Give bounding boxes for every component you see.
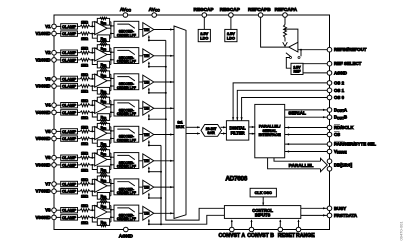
wire T/H to MUX (ch5) [154,134,174,136]
svg-text:CLAMP: CLAMP [62,76,77,81]
amplifier output node (ch3) [107,80,111,82]
resistor 1MOhm (V4) [78,104,81,106]
wire T/H to MUX (ch1) [154,29,174,31]
node: REFCAPA sense branch [284,28,286,30]
wire V2GND to clamp [56,59,60,61]
svg-text:CLAMP: CLAMP [62,208,77,213]
resistor 1MOhm (V6) [78,157,81,159]
track-and-hold T/H (ch8) [143,206,154,220]
wire to REF SELECT pin [303,63,327,65]
op-amp input amplifier (ch1) [95,22,107,35]
REF SELECT switch [300,50,302,57]
svg-text:REF: REF [294,70,302,74]
wire control to BUSY [301,207,327,209]
wire LPF to T/H (ch8) [139,212,143,214]
pin VDRIVE [327,149,332,154]
svg-text:1MΩ: 1MΩ [81,178,88,182]
svg-text:RFB: RFB [101,63,107,68]
resistor 1MOhm (V2GND) [78,59,81,61]
svg-text:ORDER LPF: ORDER LPF [117,60,136,64]
svg-text:CLAMP: CLAMP [62,162,77,167]
op-amp input amplifier (ch6) [95,153,107,166]
clamp circuit (V1) [61,24,78,29]
pin DOUTB [327,115,332,120]
T/H sampling control (ch1) [148,36,150,41]
wires to LPF (ch4) [111,104,114,106]
svg-text:ORDER LPF: ORDER LPF [117,138,136,142]
wires to LPF (ch8) [111,209,114,211]
clamp circuit (V6) [61,155,78,160]
wire VDRIVE [285,151,328,153]
wire T/H to MUX (ch3) [154,81,174,83]
svg-text:V4: V4 [45,103,51,108]
8:1 MUX [174,26,186,219]
T/H sampling control (ch3) [148,88,150,93]
pin RD/SCLK [327,125,332,130]
svg-text:2.5V: 2.5V [227,32,235,36]
svg-text:OS 2: OS 2 [334,80,345,85]
wire V7GND to clamp [56,190,60,192]
amplifier output node (ch1) [107,27,111,29]
svg-text:RFB: RFB [101,194,107,199]
svg-text:CLAMP: CLAMP [62,31,77,36]
svg-text:V4GND: V4GND [35,110,50,115]
op-amp input amplifier (ch3) [95,74,107,87]
svg-text:V6GND: V6GND [35,162,50,167]
svg-text:CLAMP: CLAMP [62,189,77,194]
svg-text:V3GND: V3GND [35,84,50,89]
wire V3 to clamp [56,78,60,80]
feedback resistor RFB top (ch6) [92,153,97,158]
svg-text:V5: V5 [45,129,51,134]
wire T/H to MUX (ch8) [154,212,174,214]
svg-text:1MΩ: 1MΩ [81,20,88,24]
svg-text:V6: V6 [45,155,51,160]
svg-text:T/H: T/H [144,54,150,58]
pin OS 2 [327,81,332,86]
clamp circuit (V7GND) [61,189,78,194]
pin OS 0 [327,95,332,100]
feedback resistor RFB bottom (ch7) [92,191,97,196]
svg-text:RFB: RFB [101,116,107,121]
svg-text:AVCC: AVCC [149,7,161,13]
second-order LPF (ch7) [114,179,139,195]
pin RANGE [298,220,300,227]
clamp circuit (V2GND) [61,57,78,62]
pin AGND (bottom) [124,227,129,232]
wire V5GND to clamp [56,138,60,140]
svg-text:AGND: AGND [119,233,134,239]
open arrow onto buffer output [283,42,288,46]
pin FRSTDATA [327,213,332,218]
clamp circuit (V1GND) [61,31,78,36]
track-and-hold T/H (ch7) [143,180,154,194]
T/H sampling control (ch8) [148,220,150,225]
wire switch to 2.5V reference [286,58,291,69]
svg-text:1MΩ: 1MΩ [81,204,88,208]
svg-text:1MΩ: 1MΩ [81,125,88,129]
svg-text:BUSY: BUSY [334,206,346,211]
resistor 1MOhm (V7) [78,183,81,185]
wire LPF to T/H (ch2) [139,55,143,57]
resistor 1MOhm (V1) [78,25,81,27]
wire to AGND pin [303,72,327,74]
svg-text:V8GND: V8GND [35,215,50,220]
svg-text:RFB: RFB [101,37,107,42]
feedback resistor RFB bottom (ch4) [92,112,97,117]
wire buffer input to REFIN/REFOUT [298,49,327,51]
svg-text:AGND: AGND [334,70,347,75]
amplifier output node (ch8) [107,211,111,213]
wire V8 to clamp [56,209,60,211]
pin CONVST A [231,220,233,227]
resistor 1MOhm (V5GND) [78,138,81,140]
control inputs block [224,206,300,219]
2.5V LDO regulator 2 [225,29,237,41]
svg-text:1MΩ: 1MΩ [81,90,88,94]
wire CLK OSC to control inputs [262,197,264,205]
wires to LPF (ch5) [111,130,114,132]
pin AGND [327,71,332,76]
svg-text:ORDER LPF: ORDER LPF [117,112,136,116]
wires to LPF (ch7) [111,183,114,185]
feedback resistor RFB top (ch3) [92,74,97,79]
pin OS 1 [327,88,332,93]
svg-text:1MΩ: 1MΩ [81,116,88,120]
svg-text:OS 0: OS 0 [334,95,345,100]
svg-text:1MΩ: 1MΩ [81,99,88,103]
track-and-hold T/H (ch3) [143,75,154,89]
wire control to FRSTDATA [301,214,327,216]
svg-text:CLAMP: CLAMP [62,181,77,186]
pin CONVST B [251,220,253,227]
wire REGCAP2 to LDO2 [230,17,232,29]
resistor 1MOhm (V4GND) [78,111,81,113]
svg-text:CLAMP: CLAMP [62,129,77,134]
wire V8GND to clamp [56,216,60,218]
pin DOUTA [327,108,332,113]
wire REGCAP1 to LDO1 [203,17,205,29]
svg-text:T/H: T/H [144,28,150,32]
svg-text:ORDER LPF: ORDER LPF [117,165,136,169]
svg-text:V1GND: V1GND [35,31,50,36]
feedback resistor RFB top (ch1) [92,22,97,27]
feedback resistor RFB top (ch4) [92,101,97,106]
op-amp input amplifier (ch8) [95,205,107,218]
wire OS 2 to digital filter [233,83,327,121]
svg-text:FRSTDATA: FRSTDATA [334,213,358,218]
pin REF SELECT [327,61,332,66]
svg-text:INPUTS: INPUTS [255,213,271,218]
svg-text:CLAMP: CLAMP [62,103,77,108]
svg-text:ORDER LPF: ORDER LPF [117,191,136,195]
resistor 1MOhm (V3GND) [78,85,81,87]
svg-text:ORDER LPF: ORDER LPF [117,33,136,37]
wire PAR/SER/BYTE SEL [285,143,328,145]
second-order LPF (ch2) [114,48,139,64]
wire V2 to clamp [56,52,60,54]
resistor 1MOhm (V1GND) [78,33,81,35]
track-and-hold T/H (ch6) [143,154,154,168]
wire V6 to clamp [56,157,60,159]
svg-text:REFIN/REFOUT: REFIN/REFOUT [334,47,367,52]
pin DB[15:0] (upper) [327,159,332,164]
svg-text:T/H: T/H [144,212,150,216]
feedback resistor RFB bottom (ch1) [92,34,97,39]
wire LPF to T/H (ch4) [139,107,143,109]
wire RD/SCLK [285,127,328,129]
svg-text:REFCAPB: REFCAPB [248,7,271,12]
SAR to digital filter bus [221,126,227,128]
clamp circuit (V5) [61,129,78,134]
svg-text:V3: V3 [45,76,51,81]
wire T/H to MUX (ch7) [154,186,174,188]
svg-text:1MΩ: 1MΩ [81,195,88,199]
second-order LPF (ch3) [114,74,139,90]
svg-text:ORDER LPF: ORDER LPF [117,86,136,90]
resistor 1MOhm (V7GND) [78,190,81,192]
wires to LPF (ch3) [111,77,114,79]
resistor 1MOhm (V5) [78,130,81,132]
svg-text:REGCAP: REGCAP [220,7,240,12]
op-amp input amplifier (ch2) [95,48,107,61]
wire OS 1 to digital filter [237,90,327,120]
svg-text:T/H: T/H [144,107,150,111]
svg-text:V7GND: V7GND [35,189,50,194]
svg-text:RFB: RFB [101,221,107,226]
wire V1GND to clamp [56,33,60,35]
svg-text:FILTER: FILTER [231,130,245,135]
CONVST A control trunk (channels 1-4) [166,40,225,220]
second-order LPF (ch8) [114,205,139,221]
16-bit SAR ADC [201,125,222,137]
track-and-hold T/H (ch4) [143,101,154,115]
clamp circuit (V4GND) [61,110,78,115]
pin RESET [279,220,281,227]
CONVST B control trunk (channels 5-8) [161,145,224,224]
second-order LPF (ch5) [114,126,139,142]
feedback resistor RFB bottom (ch2) [92,60,97,65]
feedback resistor RFB bottom (ch6) [92,165,97,170]
pin DB[15:0] (lower) [327,167,332,172]
svg-text:1MΩ: 1MΩ [81,142,88,146]
svg-text:DB[15:0]: DB[15:0] [334,163,353,168]
svg-text:CLAMP: CLAMP [62,84,77,89]
svg-text:OS 1: OS 1 [334,88,345,93]
wire DOUTB [285,116,328,118]
svg-text:ORDER LPF: ORDER LPF [117,217,136,221]
resistor 1MOhm (V3) [78,78,81,80]
clamp circuit (V3GND) [61,83,78,88]
clamp circuit (V2) [61,50,78,55]
wire LPF to T/H (ch5) [139,134,143,136]
op-amp input amplifier (ch7) [95,179,107,192]
svg-text:8:1: 8:1 [177,121,182,125]
2.5V LDO regulator 1 [198,29,210,41]
parallel/serial interface [255,104,285,157]
T/H sampling control (ch4) [148,115,150,120]
second-order LPF (ch6) [114,153,139,169]
wires to LPF (ch6) [111,156,114,158]
svg-text:T/H: T/H [144,133,150,137]
svg-text:T/H: T/H [144,186,150,190]
svg-text:DOUTA: DOUTA [334,107,348,113]
wire DOUTA [285,109,328,111]
svg-text:REF SELECT: REF SELECT [334,61,362,66]
wire LPF to T/H (ch7) [139,186,143,188]
svg-text:RFB: RFB [101,142,107,147]
clamp circuit (V8) [61,208,78,213]
svg-text:CLAMP: CLAMP [62,215,77,220]
op-amp input amplifier (ch5) [95,127,107,140]
feedback resistor RFB bottom (ch8) [92,217,97,222]
wire V5 to clamp [56,130,60,132]
svg-text:PAR/SER/BYTE SEL: PAR/SER/BYTE SEL [334,142,376,147]
resistor 1MOhm (V8) [78,209,81,211]
svg-text:1MΩ: 1MΩ [81,221,88,225]
svg-text:SAR: SAR [207,131,215,135]
svg-text:CONVST B: CONVST B [247,233,274,239]
clamp circuit (V3) [61,76,78,81]
feedback resistor RFB top (ch2) [92,48,97,53]
svg-text:REFCAPA: REFCAPA [275,7,298,12]
amplifier output node (ch7) [107,185,111,187]
clock oscillator CLK OSC [250,188,276,197]
T/H sampling control (ch2) [148,62,150,66]
svg-text:RANGE: RANGE [296,233,315,239]
svg-text:09470-001: 09470-001 [399,221,404,241]
clamp circuit (V4) [61,103,78,108]
pin CS [327,132,332,137]
svg-text:V2: V2 [45,50,51,55]
svg-text:PARALLEL: PARALLEL [289,163,314,168]
wire LPF to T/H (ch1) [139,29,143,31]
digital filter to interface bus [249,126,255,128]
digital filter [226,121,248,140]
wire REFCAPB to reference buffer output [261,17,289,47]
wire V4 to clamp [56,104,60,106]
svg-text:RFB: RFB [101,168,107,173]
feedback resistor RFB bottom (ch3) [92,86,97,91]
wires to LPF (ch1) [111,25,114,27]
wires to LPF (ch2) [111,51,114,53]
svg-text:CLK OSC: CLK OSC [255,191,272,195]
clamp circuit (V6GND) [61,162,78,167]
wire LPF to T/H (ch6) [139,160,143,162]
svg-text:1MΩ: 1MΩ [81,63,88,67]
T/H sampling control (ch6) [148,167,150,172]
wire REFCAPA with resistor [284,17,286,24]
svg-text:V7: V7 [45,182,51,187]
wire LPF to T/H (ch3) [139,81,143,83]
T/H sampling control (ch5) [148,141,150,146]
amplifier output node (ch2) [107,54,111,56]
resistor 1MOhm (V8GND) [78,216,81,218]
wire OS 0 to digital filter [242,98,328,121]
svg-text:DOUTB: DOUTB [334,115,347,121]
wire V7 to clamp [56,183,60,185]
track-and-hold T/H (ch1) [143,23,154,37]
svg-text:RESET: RESET [278,233,296,239]
pin PAR/SER/BYTE SEL [327,142,332,147]
svg-text:V5GND: V5GND [35,136,50,141]
wire T/H to MUX (ch4) [154,107,174,109]
svg-text:CLAMP: CLAMP [62,57,77,62]
svg-text:1MΩ: 1MΩ [81,152,88,156]
svg-text:LDO: LDO [200,37,208,41]
resistor 1MOhm (V2) [78,52,81,54]
pin BUSY [327,206,332,211]
wire V6GND to clamp [56,164,60,166]
svg-text:CLAMP: CLAMP [62,24,77,29]
svg-text:V1: V1 [45,24,51,29]
clamp circuit (V5GND) [61,136,78,141]
reference buffer amplifier [289,42,298,52]
svg-text:RFB: RFB [101,89,107,94]
svg-text:MUX: MUX [176,125,185,129]
svg-text:REGCAP: REGCAP [193,7,213,12]
feedback resistor RFB top (ch8) [92,206,97,211]
svg-text:AVCC: AVCC [120,7,132,13]
svg-text:2.5V: 2.5V [200,32,208,36]
svg-text:SERIAL: SERIAL [288,111,306,117]
svg-text:1MΩ: 1MΩ [81,168,88,172]
second-order LPF (ch1) [114,21,139,37]
wire T/H to MUX (ch6) [154,160,174,162]
svg-text:T/H: T/H [144,159,150,163]
svg-text:LDO: LDO [227,37,235,41]
svg-text:V2GND: V2GND [35,57,50,62]
wire T/H to MUX (ch2) [154,55,174,57]
2.5V reference [291,63,303,74]
svg-text:CLAMP: CLAMP [62,50,77,55]
svg-text:1MΩ: 1MΩ [81,47,88,51]
feedback resistor RFB top (ch7) [92,179,97,184]
resistor 1MOhm (V6GND) [78,164,81,166]
wire V1 to clamp [56,25,60,27]
svg-text:AD7606: AD7606 [225,175,247,182]
wire V4GND to clamp [56,111,60,113]
second-order LPF (ch4) [114,100,139,116]
pin REFIN/REFOUT [327,47,332,52]
MUX to SAR bus [186,126,200,128]
svg-text:T/H: T/H [144,80,150,84]
track-and-hold T/H (ch2) [143,49,154,63]
wire V3GND to clamp [56,85,60,87]
amplifier output node (ch6) [107,159,111,161]
amplifier output node (ch4) [107,106,111,108]
T/H sampling control (ch7) [148,194,150,199]
svg-text:INTERFACE: INTERFACE [259,132,281,137]
wire CS [285,134,328,136]
svg-text:CLAMP: CLAMP [62,155,77,160]
feedback resistor RFB top (ch5) [92,127,97,132]
track-and-hold T/H (ch5) [143,128,154,142]
svg-text:CLAMP: CLAMP [62,110,77,115]
svg-text:CS: CS [334,132,340,137]
svg-text:CONVST A: CONVST A [218,233,245,239]
parallel data bus to DB[15:0] [274,158,321,161]
feedback resistor RFB bottom (ch5) [92,139,97,144]
svg-text:V8: V8 [45,208,51,213]
clamp circuit (V8GND) [61,215,78,220]
svg-text:1MΩ: 1MΩ [81,37,88,41]
AD7606 chip boundary [54,15,330,230]
op-amp input amplifier (ch4) [95,100,107,113]
svg-text:RD/SCLK: RD/SCLK [334,125,354,130]
clamp circuit (V7) [61,181,78,186]
svg-text:1MΩ: 1MΩ [81,73,88,77]
